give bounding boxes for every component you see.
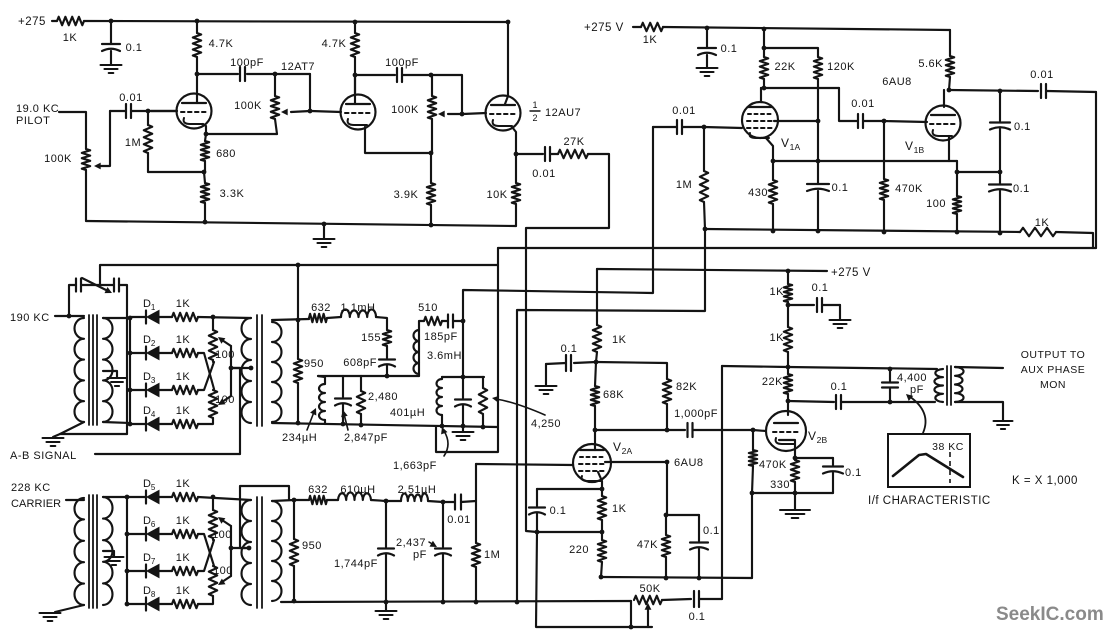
ground (tank) — [453, 426, 474, 440]
node junction plate1/100pF — [195, 72, 200, 77]
svg-text:185pF: 185pF — [424, 331, 458, 343]
svg-text:2,437: 2,437 — [396, 537, 426, 549]
svg-text:4,250: 4,250 — [531, 418, 561, 430]
wire cathode3 lead — [512, 127, 516, 154]
node junction 2847 bottom — [341, 422, 346, 427]
resistor 950 (190) — [294, 320, 324, 423]
svg-text:+275 V: +275 V — [584, 22, 624, 34]
wire T2 sec top — [272, 319, 309, 320]
wire 50K wiper — [645, 603, 652, 627]
svg-text:2: 2 — [151, 339, 156, 348]
node junction cathode2/3.9K — [429, 151, 434, 156]
capacitor 608pF — [343, 357, 395, 376]
svg-text:8: 8 — [151, 590, 156, 599]
wire 190KC input — [55, 315, 84, 317]
svg-text:0.1: 0.1 — [689, 611, 706, 623]
svg-text:1K: 1K — [63, 32, 78, 44]
node junction grid V1A/1M — [702, 125, 707, 130]
svg-text:22K: 22K — [762, 376, 783, 388]
diode D3 — [130, 371, 159, 397]
capacitor 0.1 (V1B cath bypass) — [989, 172, 1030, 233]
node junction 220 bottom — [599, 575, 604, 580]
node junction tank coil bottom — [440, 424, 445, 429]
node junction 950a bottom — [296, 421, 301, 426]
capacitor 1000pF (coupling) — [674, 408, 753, 437]
node junction grid V1B — [882, 119, 887, 124]
capacitor 0.1 (50K out) — [662, 591, 722, 623]
svg-text:1.1mH: 1.1mH — [341, 302, 376, 314]
node junction cathode V1A — [771, 159, 776, 164]
svg-text:330: 330 — [770, 479, 790, 491]
svg-text:1: 1 — [151, 303, 156, 312]
svg-text:1K: 1K — [612, 503, 627, 515]
wire cathode V1B — [948, 136, 950, 161]
wire wiper to T2 — [231, 367, 251, 369]
wire 120K top — [764, 48, 818, 57]
capacitor 0.1 (47K bypass) — [690, 515, 720, 578]
wire 632b to coil — [327, 499, 338, 501]
wire ground trunk x705 — [517, 229, 705, 602]
node junction 330 bottom — [793, 491, 798, 496]
resistor 4.7K (stage1 plate) — [193, 21, 234, 95]
resistor 1K (D6) — [159, 515, 198, 538]
wire 100pF2 to corner — [402, 74, 431, 76]
svg-text:2A: 2A — [622, 446, 633, 456]
node junction tank top — [461, 375, 466, 380]
node junction cathode V2B — [793, 456, 798, 461]
svg-text:1K: 1K — [176, 298, 191, 310]
wire diode bus 228 — [126, 497, 128, 604]
svg-text:1K: 1K — [770, 332, 785, 344]
node junction pot1 top — [273, 72, 278, 77]
node junction top line filter — [296, 263, 301, 268]
node junction d2 — [128, 351, 133, 356]
svg-text:V: V — [905, 139, 914, 153]
svg-text:430: 430 — [748, 187, 768, 199]
capacitor 2847pF — [335, 376, 351, 425]
resistor 470K (V2B grid) — [749, 430, 787, 493]
svg-text:1K: 1K — [643, 34, 658, 46]
wire plate2 row — [355, 74, 395, 76]
resistor 1K (V2B feed b) — [770, 305, 793, 367]
svg-text:1B: 1B — [914, 145, 925, 155]
wire pilot input — [59, 112, 86, 149]
inductor tank 401uH — [437, 377, 442, 426]
node junction d6 — [125, 532, 130, 537]
wire plate1 to 100pF — [197, 73, 238, 75]
node junction rail left end — [703, 227, 708, 232]
svg-text:0.01: 0.01 — [119, 92, 142, 104]
svg-text:0.01: 0.01 — [672, 105, 695, 117]
node junction 470K bottom — [750, 491, 755, 496]
svg-text:12AT7: 12AT7 — [281, 61, 315, 73]
node junction 950b bottom — [292, 599, 297, 604]
wire fb corner down — [309, 74, 311, 111]
wire 632 to coil — [327, 317, 341, 318]
svg-text:100pF: 100pF — [230, 57, 264, 69]
wire row6 diagonal — [198, 534, 214, 566]
svg-text:1K: 1K — [1035, 217, 1050, 229]
resistor 3.9K (stage2) — [394, 153, 436, 225]
resistor 1K (D3) — [159, 371, 198, 394]
ground (B+ bypass) — [101, 65, 122, 73]
svg-text:4.7K: 4.7K — [209, 38, 234, 50]
wire T1 sec bottom — [103, 422, 130, 423]
wire row3 diagonal — [198, 362, 214, 390]
resistor 4250 tank — [479, 377, 487, 427]
label V2B — [808, 429, 828, 445]
wire T3 sec top — [103, 496, 127, 498]
wire 100pF to grid2 corner — [247, 73, 310, 75]
svg-text:608pF: 608pF — [343, 357, 377, 369]
svg-text:3.6mH: 3.6mH — [427, 350, 462, 362]
resistor 22K (V2B plate) — [762, 367, 792, 401]
node junction 22K top — [786, 365, 791, 370]
wire cathode2 lead — [365, 127, 431, 153]
wire output to transformer — [890, 401, 935, 403]
svg-text:CARRIER: CARRIER — [11, 498, 61, 510]
resistor 1K (D2) — [159, 334, 198, 357]
node junction grid3 — [460, 112, 465, 117]
transformer T3 — [74, 495, 112, 608]
wire 0.1 link — [957, 171, 1000, 173]
node junction rail 3.9K — [429, 223, 434, 228]
wire screen V1A — [774, 120, 818, 122]
capacitor 185pF — [424, 315, 463, 344]
svg-text:228 KC: 228 KC — [11, 482, 51, 494]
node junction V2 feed — [594, 360, 599, 365]
wire top line 190 — [100, 265, 497, 285]
svg-text:19.0 KC: 19.0 KC — [16, 103, 59, 115]
wire T5 sec bottom — [955, 402, 1003, 420]
label 6AU8 V2 — [674, 457, 704, 469]
ground (T1 primary) — [43, 434, 64, 446]
resistor 5.6K (V1B plate) — [918, 30, 954, 90]
node junction fb2 — [429, 73, 434, 78]
svg-text:3.9K: 3.9K — [394, 189, 419, 201]
node junction 510 out — [461, 319, 466, 324]
node junction plate2/100pF — [353, 73, 358, 78]
wire cath bottom link — [537, 531, 602, 533]
node junction 82K plate — [665, 428, 670, 433]
ground (V2A left 0.1) — [536, 364, 557, 394]
wire wiper to T4 — [231, 547, 249, 549]
node junction V2A plate — [593, 428, 598, 433]
svg-text:V: V — [808, 429, 817, 443]
svg-text:1,744pF: 1,744pF — [334, 558, 378, 570]
svg-text:AUX PHASE: AUX PHASE — [1021, 364, 1086, 376]
svg-text:0.01: 0.01 — [1030, 69, 1053, 81]
resistor 1M (V2A grid leak) — [472, 501, 500, 602]
wire grid feed V1A vertical — [463, 127, 653, 377]
wire cathode V1A — [766, 138, 773, 161]
node junction trimmer left — [67, 314, 72, 319]
wire V1B output down — [1095, 92, 1097, 248]
label 6AU8 V1 — [882, 76, 912, 88]
node junction V1B plate — [947, 88, 952, 93]
svg-text:3: 3 — [151, 376, 156, 385]
svg-text:0.1: 0.1 — [703, 525, 720, 537]
svg-text:4.7K: 4.7K — [322, 38, 347, 50]
svg-text:50K: 50K — [639, 583, 660, 595]
ground (top-left rail) — [314, 224, 335, 247]
tube V tube1 12AT7a — [177, 94, 212, 129]
node junction 950b top — [292, 498, 297, 503]
capacitor 0.01 (V1A grid) — [653, 105, 704, 134]
wire T4 sec top — [272, 500, 294, 501]
node junction 0.1ab — [998, 170, 1003, 175]
diode D6 — [127, 515, 159, 541]
potentiometer 100K (input) — [44, 149, 90, 221]
wire cathode V2A — [598, 472, 602, 489]
capacitor 0.1 (B+ bypass right) — [698, 28, 737, 67]
svg-text:155: 155 — [361, 332, 381, 344]
svg-text:470K: 470K — [895, 183, 923, 195]
svg-text:950: 950 — [302, 540, 322, 552]
svg-text:0.1: 0.1 — [832, 182, 849, 194]
capacitor 0.01 (input coupling) — [110, 92, 177, 118]
node junction pot1 top — [211, 315, 216, 320]
svg-text:+275 V: +275 V — [831, 267, 871, 279]
inductor 2.51uH — [386, 484, 436, 501]
svg-text:pF: pF — [413, 549, 427, 561]
node junction mid 190 — [385, 374, 390, 379]
node junction screen/120K — [816, 119, 821, 124]
resistor 82K (V2A fb) — [596, 362, 697, 430]
svg-text:38 KC: 38 KC — [932, 441, 964, 453]
svg-text:5.6K: 5.6K — [918, 58, 943, 70]
diode D4 — [130, 405, 159, 431]
wire bus B +275V — [597, 267, 871, 279]
svg-text:1M: 1M — [676, 179, 692, 191]
wire grid V1B lead — [884, 121, 927, 122]
ground (T3 sec centertap) — [103, 551, 124, 565]
svg-text:1M: 1M — [484, 549, 500, 561]
ground (T1 sec centertap) — [103, 371, 127, 386]
inductor 234uH — [318, 376, 325, 424]
wire cathode corner 100 — [956, 161, 958, 196]
wire pot wiper input — [94, 111, 110, 169]
node junction B+ 0.1 — [109, 19, 114, 24]
capacitor trimmer b — [114, 279, 119, 292]
label 12AT7 — [281, 61, 315, 73]
wire feedback line y366 — [722, 366, 937, 369]
svg-text:1,663pF: 1,663pF — [393, 460, 437, 472]
wire 47K top link — [666, 462, 699, 515]
node junction rail 0.1 — [816, 229, 821, 234]
svg-text:+275: +275 — [18, 16, 46, 28]
wire 228 output link — [240, 486, 289, 548]
node junction grid2 wire — [308, 109, 313, 114]
capacitor 0.1 (V2A left) — [546, 343, 596, 371]
label 401uH — [390, 407, 425, 419]
wire T5 sec top — [955, 367, 1003, 368]
svg-text:0.1: 0.1 — [721, 43, 738, 55]
capacitor 100pF (stage2 fb) — [385, 57, 419, 82]
tube V tube2 12AT7b — [341, 75, 376, 130]
svg-text:401µH: 401µH — [390, 407, 425, 419]
svg-text:1K: 1K — [176, 478, 191, 490]
node junction tank cap bottom — [461, 424, 466, 429]
wire cathode1 lead — [203, 124, 206, 134]
resistor 47K — [637, 515, 670, 578]
capacitor 0.1 (B+ bypass) — [102, 21, 142, 64]
label A-B SIGNAL — [10, 450, 77, 462]
resistor 1K (D8) — [159, 585, 198, 608]
transformer T4 — [242, 497, 282, 608]
svg-text:1K: 1K — [176, 585, 191, 597]
capacitor 0.1 (V2B feed bypass) — [788, 282, 840, 312]
node junction 100/0.1 — [955, 170, 960, 175]
resistor 1K (V2B feed a) — [770, 271, 793, 305]
wire pot1 wiper — [281, 109, 310, 116]
svg-text:6AU8: 6AU8 — [674, 457, 704, 469]
capacitor 0.1 (V2A cath) — [529, 489, 602, 532]
wire cathode line V1 — [773, 160, 957, 162]
node junction 0.1/27Kline — [535, 530, 540, 535]
wire ground rail top-left — [86, 221, 516, 226]
node junction pot3 top — [211, 495, 216, 500]
capacitor 2437pF — [396, 502, 451, 602]
wire row2 diagonal — [198, 353, 214, 389]
node junction 50K left — [629, 625, 634, 630]
label K = X 1000 — [1012, 475, 1078, 487]
wire T3 primary bottom — [55, 605, 84, 612]
wire 1M bottom to cathode node — [148, 171, 204, 173]
svg-text:1K: 1K — [176, 334, 191, 346]
node junction 1K 220 — [600, 530, 605, 535]
svg-text:6AU8: 6AU8 — [882, 76, 912, 88]
node junction T2 tap — [249, 366, 254, 371]
wire grid2 lead — [311, 111, 341, 112]
svg-text:1K: 1K — [176, 515, 191, 527]
resistor 1K (V2 plate feed) — [593, 269, 627, 362]
wire coil to 0.01 — [428, 501, 443, 502]
node junction 2480 bottom — [359, 423, 364, 428]
capacitor 0.01 (228 out) — [443, 495, 476, 527]
ground (V2B cathode) — [780, 493, 810, 518]
node junction 950a top — [296, 318, 301, 323]
label 1/f CHARACTERISTIC — [868, 495, 991, 507]
svg-text:47K: 47K — [637, 539, 658, 551]
node junction cathode V2A — [600, 487, 605, 492]
node +275V supply label — [584, 22, 624, 34]
wire V2B grid lead — [753, 430, 766, 431]
node junction B+ 22K — [762, 27, 767, 32]
wire grid V1A — [704, 127, 742, 128]
resistor 68K (V2A plate) — [591, 362, 624, 430]
wire trimmer left — [69, 285, 76, 316]
resistor 22K (V1A plate) — [760, 29, 796, 88]
node junction wiper mid 228 — [229, 546, 234, 551]
wire row7 diagonal — [198, 540, 214, 571]
wire pot2 wiper — [438, 111, 462, 118]
node junction B+ 0.1 right — [705, 26, 710, 31]
svg-text:82K: 82K — [676, 381, 697, 393]
inductor 610uH — [338, 484, 376, 500]
wire bias line y577 — [601, 577, 752, 578]
label V2A — [613, 440, 633, 456]
wire V2A grid line — [476, 464, 573, 465]
resistor 1K (D5) — [159, 478, 198, 501]
node junction 1744 bottom — [384, 600, 389, 605]
node junction 3.3K rail — [203, 220, 208, 225]
svg-text:632: 632 — [311, 302, 331, 314]
svg-text:1K: 1K — [176, 552, 191, 564]
resistor 220 (V2A cathode 2) — [569, 532, 606, 577]
label SeekIC.com watermark — [996, 604, 1104, 625]
potentiometer 100K (stage2 fb) — [391, 75, 436, 153]
wire 470K to bias — [751, 493, 753, 578]
svg-text:680: 680 — [216, 148, 236, 160]
diode D8 — [127, 585, 159, 611]
potentiometer 100 (228 upper) — [209, 497, 232, 541]
resistor 1K (D4) — [159, 405, 198, 428]
wire V2A screen — [605, 461, 667, 463]
node junction d5 — [125, 495, 130, 500]
wire wiper bus 228 — [230, 526, 232, 576]
wire V1A plate node — [761, 88, 839, 102]
label 38KC — [932, 441, 964, 453]
node junction B+ 4.7K2 — [353, 20, 358, 25]
wire 27K output loop — [526, 154, 609, 532]
svg-text:610µH: 610µH — [340, 484, 375, 496]
node junction cathode1 — [204, 132, 209, 137]
transformer T1 — [74, 315, 112, 425]
label 19.0KC PILOT — [16, 103, 59, 127]
svg-text:1K: 1K — [612, 334, 627, 346]
tube V2B 6AU8 triode — [766, 401, 806, 451]
diode D7 — [127, 552, 159, 578]
label 190 KC — [10, 312, 50, 324]
svg-text:2.51µH: 2.51µH — [398, 484, 437, 496]
resistor 632 (190) — [309, 302, 331, 322]
resistor 1K (D1) — [159, 298, 198, 321]
wire coil corner — [376, 317, 387, 330]
svg-text:68K: 68K — [603, 389, 624, 401]
resistor 1M (V1A grid leak) — [676, 127, 708, 229]
potentiometer 100 (228 lower) — [209, 565, 233, 596]
svg-text:10K: 10K — [486, 189, 507, 201]
resistor 470K (V1B grid leak) — [880, 121, 923, 232]
svg-text:120K: 120K — [827, 61, 855, 73]
wire grid bias vertical — [536, 532, 652, 627]
wire filter bottom 190 — [272, 423, 497, 427]
wire feedback vertical x722 — [721, 366, 723, 599]
node junction plate/0.1a — [998, 89, 1003, 94]
resistor 120K (screen feed) — [814, 57, 855, 161]
svg-text:7: 7 — [151, 557, 156, 566]
wire plate V1B out — [949, 90, 1038, 91]
resistor 10K (stage3 cathode) — [486, 154, 520, 226]
resistor 1M (grid1 leak) — [125, 111, 152, 172]
node junction 2437 top — [441, 500, 446, 505]
potentiometer 50K — [631, 583, 662, 627]
wire pot2 wiper 190 — [218, 396, 231, 405]
resistor 950 (228) — [290, 500, 322, 601]
diode D2 — [130, 334, 159, 360]
label 228 KC CARRIER — [11, 482, 61, 510]
node junction 22K/120K top — [762, 46, 767, 51]
node junction grid1/1M — [146, 109, 151, 114]
wire trimmer mid — [81, 284, 114, 286]
wire bias line y602 — [281, 601, 631, 602]
inductor 1.1mH — [341, 302, 376, 317]
wire grid3 lead — [463, 113, 486, 114]
svg-text:MON: MON — [1040, 379, 1066, 391]
capacitor 0.01 (V1B grid) — [839, 88, 884, 128]
svg-text:1M: 1M — [125, 137, 141, 149]
